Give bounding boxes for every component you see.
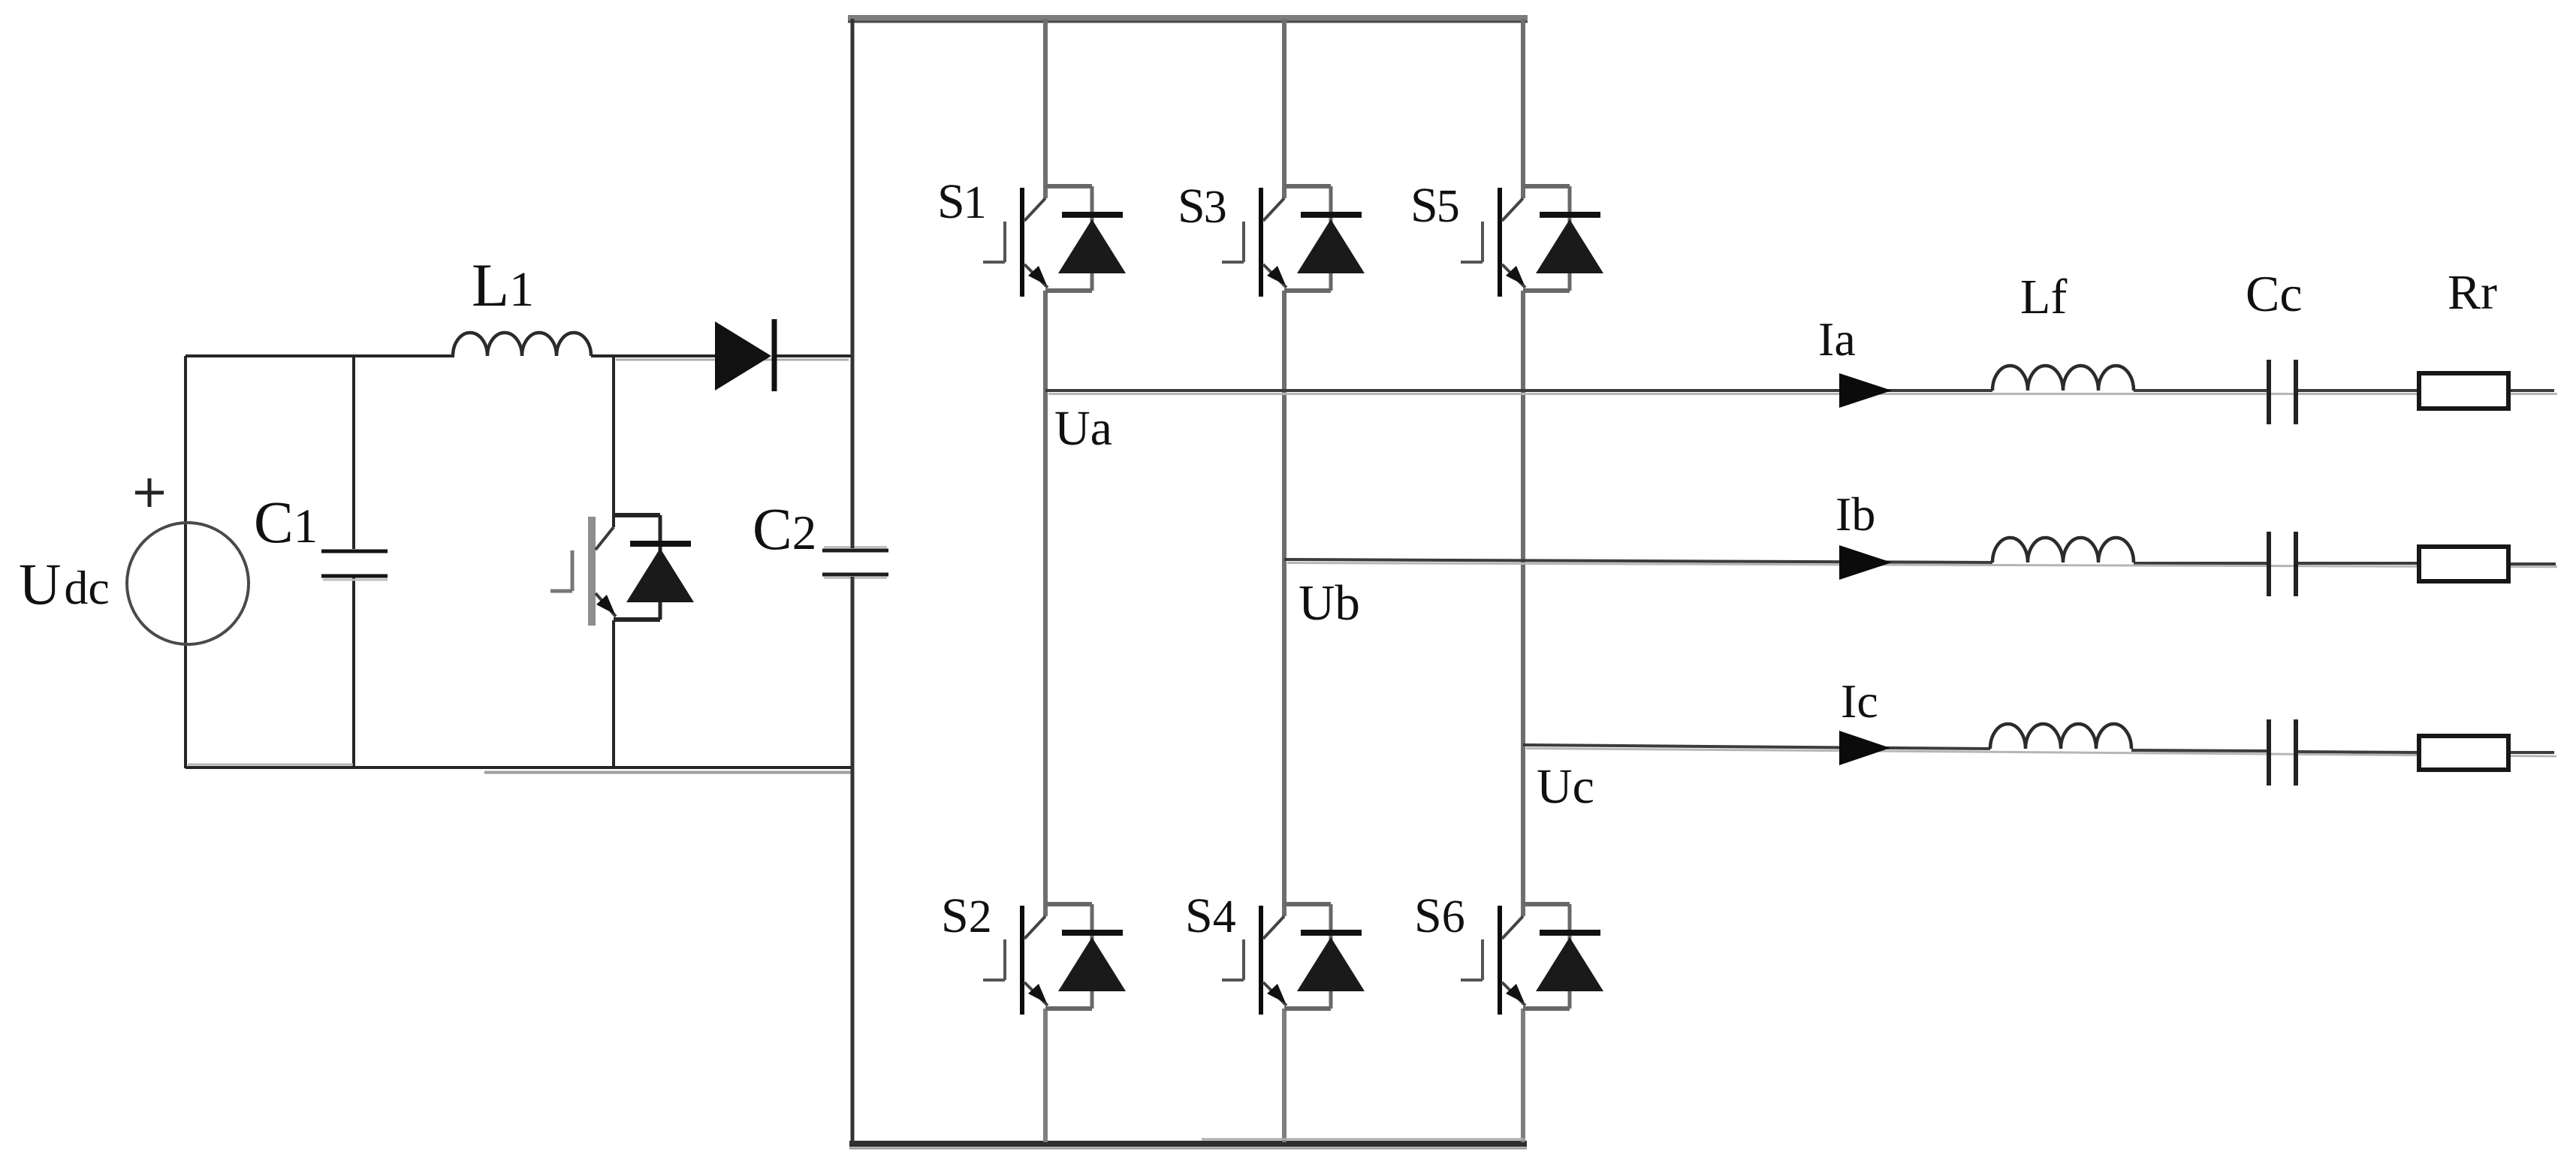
svg-text:Ub: Ub: [1299, 575, 1360, 631]
svg-text:Ua: Ua: [1054, 401, 1112, 456]
svg-text:Ic: Ic: [1841, 674, 1878, 728]
svg-text:S4: S4: [1185, 888, 1236, 943]
svg-text:C1: C1: [254, 490, 318, 556]
svg-text:S5: S5: [1410, 178, 1460, 233]
svg-text:S2: S2: [941, 888, 992, 943]
svg-text:Lf: Lf: [2020, 270, 2067, 324]
svg-text:Udc: Udc: [19, 551, 110, 617]
svg-text:C2: C2: [753, 497, 816, 562]
svg-text:Rr: Rr: [2448, 265, 2497, 320]
svg-text:Ib: Ib: [1835, 487, 1875, 541]
svg-text:S1: S1: [937, 174, 987, 229]
svg-text:Uc: Uc: [1537, 759, 1594, 814]
svg-text:Cc: Cc: [2246, 265, 2303, 322]
svg-text:S3: S3: [1178, 179, 1227, 234]
svg-text:Ia: Ia: [1818, 312, 1856, 366]
svg-text:S6: S6: [1414, 888, 1465, 943]
